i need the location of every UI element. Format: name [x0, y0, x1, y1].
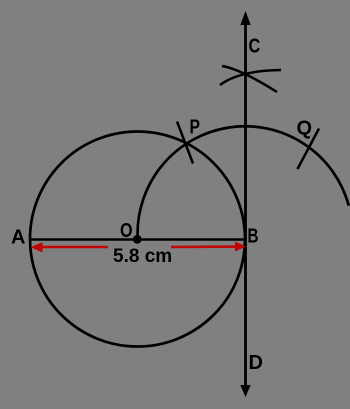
- svg-text:D: D: [249, 352, 263, 374]
- wire AB (diameter line): [30, 238, 246, 241]
- svg-text:Q: Q: [297, 118, 313, 140]
- arrowhead top of CD: [240, 11, 250, 25]
- svg-text:B: B: [248, 226, 259, 248]
- wire CD (vertical line through B): [244, 22, 247, 388]
- tick mark at Q: [298, 129, 320, 170]
- svg-text:A: A: [11, 227, 25, 249]
- arc through P and Q (centered at B): [138, 126, 349, 237]
- circle (main, center O diameter AB): [30, 132, 245, 347]
- tick mark at P: [177, 122, 193, 164]
- dimension line red left segment: [33, 246, 108, 249]
- arrowhead bottom of CD: [240, 385, 250, 397]
- node O (center dot): [133, 235, 142, 244]
- dimension line red right segment: [171, 245, 243, 248]
- svg-text:C: C: [249, 36, 261, 58]
- construction arc cross near C (upper stroke): [222, 66, 277, 92]
- svg-text:P: P: [190, 117, 201, 139]
- red arrowhead at A: [31, 242, 43, 253]
- svg-text:5.8 cm: 5.8 cm: [113, 246, 172, 267]
- red arrowhead at B: [235, 242, 246, 252]
- svg-text:O: O: [120, 220, 133, 242]
- construction arc cross near C (lower stroke): [220, 70, 281, 85]
